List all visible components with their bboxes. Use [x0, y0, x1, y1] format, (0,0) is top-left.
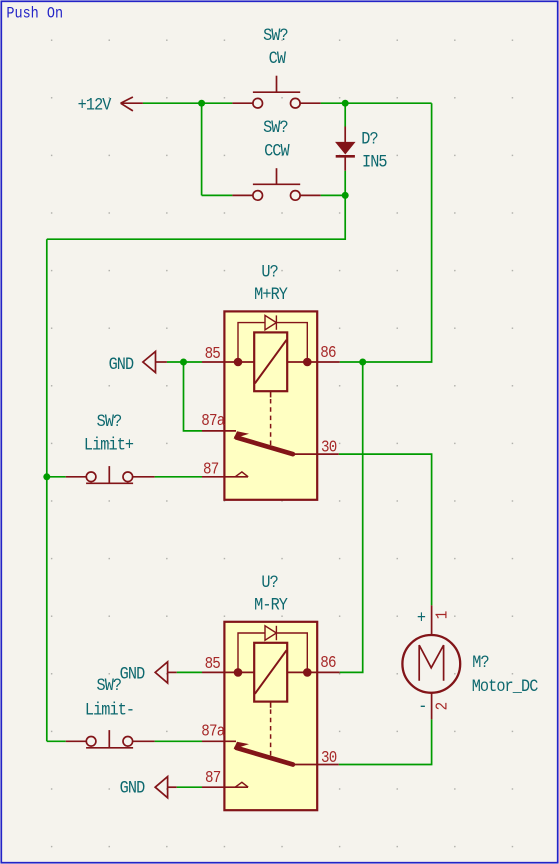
svg-text:SW?: SW? — [263, 25, 288, 45]
svg-text:SW?: SW? — [96, 675, 121, 695]
relay1 body — [224, 311, 317, 499]
svg-text:M-RY: M-RY — [254, 594, 288, 614]
svg-text:GND: GND — [120, 663, 146, 683]
wire GND1 to relay1 pin 85 — [167, 361, 202, 363]
relay1 internal junction dots — [234, 358, 243, 367]
junction at CCW / diode bottom — [342, 192, 349, 199]
svg-text:86: 86 — [320, 343, 336, 362]
relay2 pin 87a — [202, 740, 236, 742]
relay1 internal diode bracket — [238, 323, 307, 362]
svg-text:CW: CW — [269, 48, 286, 68]
wire ground branch to relay1 pin 87a — [184, 362, 203, 431]
relay2 body — [224, 622, 317, 810]
svg-text:Motor_DC: Motor_DC — [472, 676, 539, 696]
relay2 internal diode bracket — [238, 633, 307, 672]
svg-text:Push On: Push On — [6, 6, 63, 23]
diode D? IN5 — [336, 127, 387, 173]
svg-text:U?: U? — [261, 572, 277, 592]
relay1 pin 85 — [202, 361, 254, 363]
relay2 pin 85 — [202, 671, 254, 673]
svg-text:30: 30 — [321, 437, 337, 456]
wire Limit+ left lead — [47, 476, 66, 478]
svg-text:2: 2 — [432, 702, 451, 710]
relay2 internal junction dots — [234, 668, 243, 677]
svg-text:+12V: +12V — [78, 94, 112, 114]
svg-text:IN5: IN5 — [362, 152, 387, 172]
global label GND (relay2 pin 85) — [120, 662, 177, 684]
svg-text:M?: M? — [472, 652, 488, 672]
svg-text:U?: U? — [261, 261, 277, 281]
wire left rail — [46, 239, 48, 741]
relay2 pin 30 — [293, 764, 339, 766]
switch SW? CW — [232, 25, 320, 108]
wire 86 bus down to relay2 pin 86 — [340, 362, 363, 672]
global label GND (relay2 pin 87) — [120, 777, 177, 798]
svg-text:87a: 87a — [201, 411, 225, 430]
relay1 coil — [254, 332, 287, 391]
svg-text:85: 85 — [205, 654, 221, 673]
svg-text:+: + — [417, 607, 426, 627]
relay2 pin 86 — [287, 671, 340, 673]
wire +12V rail right of SW CW — [321, 102, 432, 104]
junction at left rail / Limit+ — [43, 473, 50, 480]
global label +12V — [78, 94, 143, 114]
svg-text:85: 85 — [205, 344, 221, 363]
wire Limit- to relay2 pin 87a — [155, 740, 202, 742]
motor pin 2 — [431, 693, 433, 719]
wire +12V rail left — [143, 102, 233, 104]
relay1 pin 86 — [287, 361, 340, 363]
svg-text:GND: GND — [109, 354, 135, 374]
svg-text:SW?: SW? — [97, 411, 122, 431]
motor body circle — [402, 635, 460, 693]
relay1 internal diode — [265, 315, 276, 329]
motor M glyph — [419, 645, 443, 681]
relay1 actuator dashed link — [270, 399, 272, 447]
wire Limit+ to relay1 pin 87 — [155, 476, 202, 478]
relay U? M-RY — [201, 572, 339, 811]
svg-text:1: 1 — [432, 611, 451, 619]
junction at +12V / SW CW — [198, 100, 205, 107]
junction at relay1 pin86 bus — [359, 359, 366, 366]
relay2 actuator dashed link — [270, 709, 272, 757]
relay1 switch arm — [234, 431, 249, 438]
relay2 coil — [254, 643, 287, 702]
relay2 internal diode — [265, 626, 276, 640]
svg-text:86: 86 — [320, 653, 336, 672]
svg-text:CCW: CCW — [264, 140, 290, 160]
junction at GND1 branch — [180, 359, 187, 366]
svg-text:87a: 87a — [201, 722, 225, 741]
motor pin 1 — [431, 605, 433, 635]
svg-text:GND: GND — [120, 777, 146, 797]
wire left vertical CW to CCW — [201, 103, 203, 195]
svg-text:Limit-: Limit- — [85, 699, 134, 719]
wire Limit- left lead — [47, 740, 66, 742]
switch SW? CCW — [232, 117, 320, 200]
switch SW? Limit+ — [66, 411, 155, 483]
wire CCW right lead — [321, 194, 346, 196]
relay U? M+RY — [201, 261, 339, 500]
svg-text:87: 87 — [205, 768, 221, 787]
motor M? Motor_DC — [402, 605, 538, 719]
svg-text:Limit+: Limit+ — [84, 434, 134, 454]
relay1 pin 87a — [202, 430, 236, 432]
wire GND2 to relay2 pin 85 — [177, 671, 202, 673]
wire CCW left lead — [202, 194, 233, 196]
relay1 pin 87 — [202, 476, 248, 478]
relay1 pin 30 — [293, 453, 339, 455]
relay2 pin 87 — [202, 786, 248, 788]
relay2 switch arm — [234, 742, 249, 749]
wire GND3 to relay2 pin 87 — [177, 786, 202, 788]
wire relay1 pin 30 to motor — [339, 454, 432, 605]
junction at top rail / diode — [342, 100, 349, 107]
global label GND (relay1 pin 85) — [109, 352, 167, 375]
svg-text:87: 87 — [203, 459, 219, 478]
wire right drop to relay1 pin 86 — [340, 103, 432, 362]
svg-text:D?: D? — [361, 128, 377, 148]
wire diode bottom — [344, 171, 346, 196]
wire down from CCW junction and long left horizontal — [47, 195, 345, 239]
svg-text:M+RY: M+RY — [254, 284, 288, 304]
svg-text:30: 30 — [321, 748, 337, 767]
wire diode top — [344, 103, 346, 126]
wire motor bottom to relay2 pin 30 — [339, 719, 432, 764]
svg-text:SW?: SW? — [263, 117, 288, 137]
switch SW? Limit- — [66, 675, 155, 748]
svg-text:-: - — [418, 696, 426, 716]
